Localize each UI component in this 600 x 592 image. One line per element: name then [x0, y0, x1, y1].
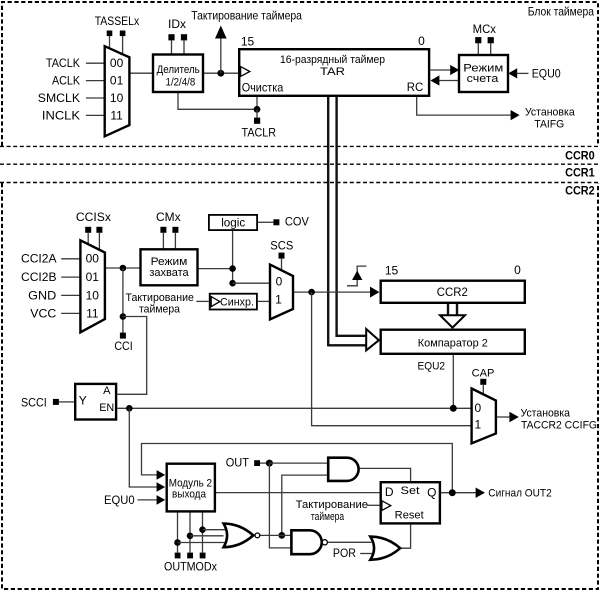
svg-text:1/2/4/8: 1/2/4/8 — [166, 77, 196, 89]
svg-text:IDx: IDx — [168, 17, 186, 31]
svg-text:SCCI: SCCI — [21, 395, 47, 409]
svg-text:Делитель: Делитель — [157, 64, 200, 76]
svg-text:таймера: таймера — [139, 304, 181, 316]
svg-text:11: 11 — [86, 307, 99, 321]
svg-text:Y: Y — [79, 393, 87, 407]
svg-text:EQU0: EQU0 — [532, 66, 561, 80]
svg-text:INCLK: INCLK — [42, 108, 80, 122]
svg-text:Установка: Установка — [525, 106, 576, 118]
svg-text:A: A — [103, 385, 111, 397]
svg-text:EQU2: EQU2 — [418, 360, 446, 372]
svg-text:CCI2A: CCI2A — [21, 252, 57, 266]
svg-text:CCR0: CCR0 — [565, 150, 595, 162]
svg-text:выхода: выхода — [172, 489, 207, 501]
svg-text:Тактирование таймера: Тактирование таймера — [191, 9, 302, 23]
svg-text:TACLR: TACLR — [242, 126, 277, 140]
svg-text:Компаратор 2: Компаратор 2 — [418, 337, 488, 349]
svg-text:CCISx: CCISx — [76, 210, 111, 224]
svg-text:MCx: MCx — [473, 22, 496, 36]
svg-text:GND: GND — [28, 288, 56, 302]
svg-text:CCI: CCI — [114, 339, 132, 353]
svg-text:00: 00 — [86, 252, 100, 266]
svg-text:Reset: Reset — [395, 509, 424, 521]
svg-text:EQU0: EQU0 — [104, 493, 135, 507]
svg-text:15: 15 — [241, 35, 255, 49]
svg-text:Модуль 2: Модуль 2 — [169, 477, 212, 489]
svg-text:0: 0 — [276, 274, 283, 288]
svg-text:0: 0 — [418, 34, 425, 48]
svg-text:Установка: Установка — [521, 408, 571, 420]
svg-text:16-разрядный таймер: 16-разрядный таймер — [280, 54, 385, 66]
svg-text:COV: COV — [285, 215, 309, 229]
svg-text:Тактирование: Тактирование — [126, 292, 194, 304]
svg-text:SCS: SCS — [270, 238, 293, 252]
svg-text:Тактирование: Тактирование — [296, 499, 368, 511]
svg-text:0: 0 — [475, 401, 482, 415]
svg-text:OUTMODx: OUTMODx — [164, 560, 217, 574]
svg-text:Q: Q — [427, 485, 436, 499]
svg-text:TACLK: TACLK — [46, 56, 80, 70]
svg-text:таймера: таймера — [311, 511, 345, 523]
svg-text:01: 01 — [86, 270, 100, 284]
svg-text:CMx: CMx — [156, 210, 181, 224]
svg-text:10: 10 — [86, 288, 100, 302]
svg-text:TAR: TAR — [320, 66, 345, 78]
svg-text:Set: Set — [401, 485, 420, 497]
svg-text:00: 00 — [110, 56, 124, 70]
svg-text:D: D — [385, 485, 394, 499]
svg-text:01: 01 — [110, 74, 124, 88]
svg-text:OUT: OUT — [226, 455, 250, 469]
svg-text:CCR2: CCR2 — [437, 285, 468, 299]
svg-text:Блок таймера: Блок таймера — [528, 4, 595, 18]
svg-text:0: 0 — [514, 263, 521, 277]
svg-text:TASSELx: TASSELx — [95, 14, 140, 28]
svg-text:1: 1 — [475, 417, 482, 431]
svg-text:CCI2B: CCI2B — [21, 270, 57, 284]
svg-text:счета: счета — [467, 73, 500, 85]
svg-text:ACLK: ACLK — [52, 74, 80, 88]
svg-text:TACCR2 CCIFG: TACCR2 CCIFG — [521, 419, 597, 431]
svg-text:10: 10 — [110, 91, 124, 105]
svg-text:1: 1 — [275, 292, 282, 306]
svg-text:VCC: VCC — [30, 307, 56, 321]
svg-text:Очистка: Очистка — [242, 81, 284, 95]
svg-text:RC: RC — [407, 80, 424, 94]
svg-text:11: 11 — [110, 108, 123, 122]
svg-text:Синхр.: Синхр. — [220, 297, 254, 309]
svg-text:CCR2: CCR2 — [565, 185, 595, 197]
svg-text:захвата: захвата — [149, 267, 189, 279]
svg-text:POR: POR — [333, 546, 356, 560]
svg-text:SMCLK: SMCLK — [38, 91, 80, 105]
svg-text:logic: logic — [221, 216, 245, 230]
svg-text:CAP: CAP — [472, 367, 495, 379]
svg-text:Сигнал OUT2: Сигнал OUT2 — [488, 488, 551, 500]
svg-text:TAIFG: TAIFG — [534, 119, 564, 131]
svg-text:15: 15 — [385, 264, 399, 278]
svg-text:EN: EN — [99, 402, 114, 414]
svg-text:CCR1: CCR1 — [565, 168, 595, 180]
